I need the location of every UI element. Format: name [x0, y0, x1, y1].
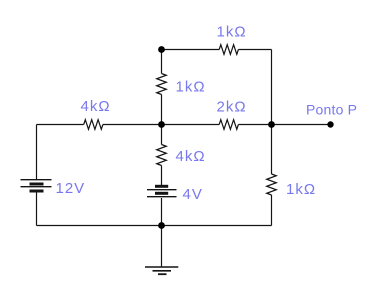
ground bar 1	[145, 266, 178, 268]
svg-text:4kΩ: 4kΩ	[81, 98, 111, 115]
svg-text:Ponto P: Ponto P	[306, 101, 357, 117]
battery B1 12V plates	[21, 179, 52, 181]
svg-text:1kΩ: 1kΩ	[286, 181, 316, 198]
resistor R-mid 1k (vertical zigzag)	[157, 74, 167, 95]
resistor R-left 4k (horizontal zigzag)	[84, 120, 103, 130]
resistor R-top 1k (horizontal zigzag)	[219, 45, 238, 55]
wire main horizontal left lead	[37, 124, 84, 126]
wire to battery B2	[161, 166, 163, 186]
ground bar 2	[153, 270, 172, 272]
svg-text:12V: 12V	[56, 180, 86, 197]
wire middle vertical node B down	[161, 125, 163, 145]
svg-text:4kΩ: 4kΩ	[176, 148, 206, 165]
wire right vertical upper	[271, 50, 273, 125]
svg-text:4V: 4V	[183, 186, 203, 203]
wire middle vertical to node B	[161, 95, 163, 125]
resistor R-2k (horizontal zigzag)	[219, 120, 238, 130]
wire top from node A to 1k resistor	[162, 49, 220, 51]
resistor R-mid 4k (vertical zigzag)	[157, 145, 167, 166]
wire node B to 2k	[162, 124, 220, 126]
ground stem	[161, 226, 163, 268]
terminal Ponto P dot	[327, 121, 333, 127]
wire top right segment	[238, 49, 271, 51]
wire to node B	[103, 124, 162, 126]
wire left vertical lower	[36, 193, 38, 226]
node C dot	[268, 121, 275, 128]
resistor R-right 1k (vertical zigzag)	[267, 174, 277, 195]
wire node C to Ponto P terminal	[272, 124, 331, 126]
wire battery B2 to bottom node	[161, 198, 163, 226]
wire 2k to node C	[238, 124, 271, 126]
wire bottom horizontal	[37, 225, 272, 227]
node B dot	[158, 121, 165, 128]
wire right vertical node C down	[271, 125, 273, 175]
svg-text:1kΩ: 1kΩ	[217, 23, 247, 40]
svg-text:2kΩ: 2kΩ	[217, 99, 247, 116]
node A dot	[158, 46, 165, 53]
battery B2 4V plates	[155, 185, 168, 188]
bottom node dot	[158, 222, 165, 229]
wire middle vertical upper lead	[161, 50, 163, 74]
ground bar 3	[158, 273, 167, 275]
svg-text:1kΩ: 1kΩ	[176, 79, 206, 96]
wire left vertical upper	[36, 125, 38, 180]
wire right vertical lower	[271, 195, 273, 226]
